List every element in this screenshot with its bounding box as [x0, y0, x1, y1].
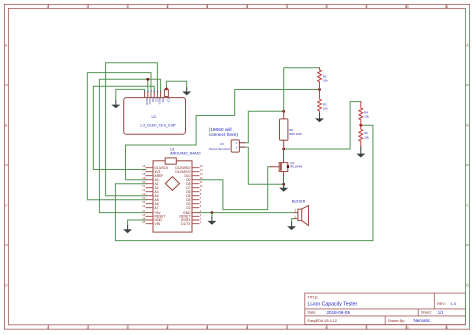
svg-text:Li-ion Capacity Tester: Li-ion Capacity Tester [308, 302, 358, 308]
wire Arduino left GND [128, 220, 146, 226]
svg-text:Nematic: Nematic [414, 318, 431, 323]
svg-text:D: D [5, 284, 8, 288]
svg-text:1: 1 [47, 5, 49, 9]
wire A1 long sense wire to R4/R2 divider [115, 184, 373, 241]
svg-text:TITLE:: TITLE: [308, 295, 319, 299]
U3 pin numbers [236, 141, 238, 149]
svg-text:1.0: 1.0 [451, 301, 457, 306]
svg-text:CS: CS [167, 98, 171, 102]
svg-text:D: D [466, 284, 469, 288]
svg-text:7: 7 [285, 5, 287, 9]
svg-text:9: 9 [365, 5, 367, 9]
junction box pin dot [165, 88, 168, 91]
wire D9 to Q1 gate [199, 167, 271, 210]
buzzer LS1 [295, 206, 309, 226]
ground Q1 source [279, 184, 288, 192]
svg-text:1/1: 1/1 [438, 310, 444, 315]
svg-text:2: 2 [86, 326, 88, 330]
svg-text:R05 10W: R05 10W [289, 132, 302, 136]
ground R3 [315, 114, 324, 123]
svg-text:5: 5 [206, 326, 208, 330]
U1 pin stubs right [192, 168, 199, 224]
svg-text:1.3_OLED_X0.0_0.96": 1.3_OLED_X0.0_0.96" [140, 124, 177, 128]
svg-text:10k: 10k [364, 115, 369, 119]
wire load node R6 bottom to R4 top [284, 102, 361, 149]
Arduino U1 [153, 161, 192, 232]
resistor R6 (load) [280, 111, 288, 149]
svg-text:U3: U3 [220, 142, 224, 146]
svg-text:D2: D2 [186, 206, 190, 210]
ground arduino-right [207, 217, 216, 225]
wire B+ rail up to R1 [284, 68, 320, 111]
junction B+ node [282, 110, 285, 113]
svg-text:5: 5 [206, 5, 208, 9]
svg-text:11: 11 [445, 326, 449, 330]
junction R4/R2 midpoint [359, 124, 362, 127]
svg-text:8: 8 [325, 5, 327, 9]
ground arduino-left [123, 226, 132, 234]
U1 left pin numbers [142, 164, 145, 224]
junction load node [282, 148, 285, 151]
wire buzzer drive [199, 212, 295, 214]
U2 pin numbers rotated [144, 89, 162, 93]
svg-text:6: 6 [246, 5, 248, 9]
transistor Q1 IRLZ44N [271, 149, 288, 184]
svg-text:4: 4 [166, 326, 168, 330]
wire buzzer pin2 to GND [292, 219, 295, 223]
svg-text:connect here): connect here) [209, 132, 239, 138]
wire Arduino right GND tap [211, 213, 213, 218]
OLED U2 [124, 90, 186, 135]
svg-text:11: 11 [445, 5, 449, 9]
ground R2 [356, 147, 365, 158]
buzzer polarity marks [294, 208, 296, 217]
wire OLED pin1 GND [116, 89, 145, 101]
ground OLED-left [111, 101, 120, 108]
svg-text:C: C [5, 204, 8, 208]
U1 left pin names [155, 166, 170, 226]
resistor R2 [359, 125, 363, 147]
svg-text:R2: R2 [364, 131, 368, 135]
resistor R3 [318, 90, 322, 114]
svg-text:U2: U2 [152, 115, 156, 119]
U1 right pin names [175, 166, 191, 226]
svg-text:C: C [466, 204, 469, 208]
U1 diamond logo [165, 177, 179, 191]
svg-text:6: 6 [246, 326, 248, 330]
resistor R4 [359, 102, 363, 126]
svg-text:1: 1 [47, 326, 49, 330]
ground buzzer [287, 223, 296, 231]
svg-text:EasyEDA V5.4.12: EasyEDA V5.4.12 [308, 319, 337, 323]
junction source/GND node [282, 183, 285, 186]
wire A4 to OLED pin5 [106, 63, 158, 196]
junction buzzer/gnd tap [211, 211, 214, 214]
U1 right pin numbers [200, 164, 203, 224]
svg-text:VIN: VIN [155, 222, 161, 226]
svg-text:10: 10 [405, 5, 409, 9]
junction R1/R3 midpoint [318, 88, 321, 91]
U1 pin stubs left [146, 168, 153, 224]
svg-text:Drawn By:: Drawn By: [388, 319, 405, 323]
svg-text:A7: A7 [155, 206, 159, 210]
svg-text:8: 8 [325, 326, 327, 330]
svg-text:10k: 10k [323, 106, 328, 110]
U1 USB connector box [165, 158, 176, 164]
svg-text:3: 3 [126, 326, 128, 330]
wire OLED pin7 (box pin) to GND [166, 81, 186, 89]
svg-text:2: 2 [86, 5, 88, 9]
svg-text:BUZZER: BUZZER [292, 200, 306, 204]
svg-text:9: 9 [365, 326, 367, 330]
svg-text:10: 10 [405, 326, 409, 330]
wire B+ from screw terminal [244, 111, 283, 143]
svg-text:ARDUINO_NANO: ARDUINO_NANO [170, 151, 201, 155]
svg-text:10k: 10k [364, 136, 369, 140]
junction VCC dot [146, 78, 149, 81]
wire +5V to OLED pins 2 and 6 [99, 79, 160, 212]
svg-text:REV:: REV: [437, 302, 445, 306]
ground OLED-right [182, 88, 191, 95]
svg-text:3: 3 [126, 5, 128, 9]
svg-text:-: - [294, 214, 295, 217]
wire A5 to OLED pin3 [87, 73, 151, 200]
TITLE-BLOCK [305, 293, 466, 325]
resistor R1 [318, 68, 322, 90]
svg-text:4: 4 [166, 5, 168, 9]
wire B- from screw terminal to GND [244, 147, 283, 184]
svg-text:IRLZ44N: IRLZ44N [290, 164, 302, 168]
svg-text:7: 7 [285, 326, 287, 330]
svg-text:10k: 10k [323, 78, 328, 82]
screw terminal U3 [231, 140, 244, 152]
svg-text:Sheet:: Sheet: [421, 310, 432, 314]
svg-text:Screw Terminal: Screw Terminal [209, 147, 230, 151]
wire A0 sense wire to R1/R3 divider [126, 90, 320, 180]
buzzer pin numbers [295, 210, 297, 219]
svg-text:D1/TX: D1/TX [181, 222, 191, 226]
wire R4/R2 midpoint down to long sense wire [361, 125, 373, 240]
svg-text:Date:: Date: [308, 310, 317, 314]
U2 pin name labels [145, 98, 171, 106]
svg-text:2018-06-05: 2018-06-05 [327, 310, 351, 315]
wire D13 to OLED pin4 [93, 86, 154, 169]
